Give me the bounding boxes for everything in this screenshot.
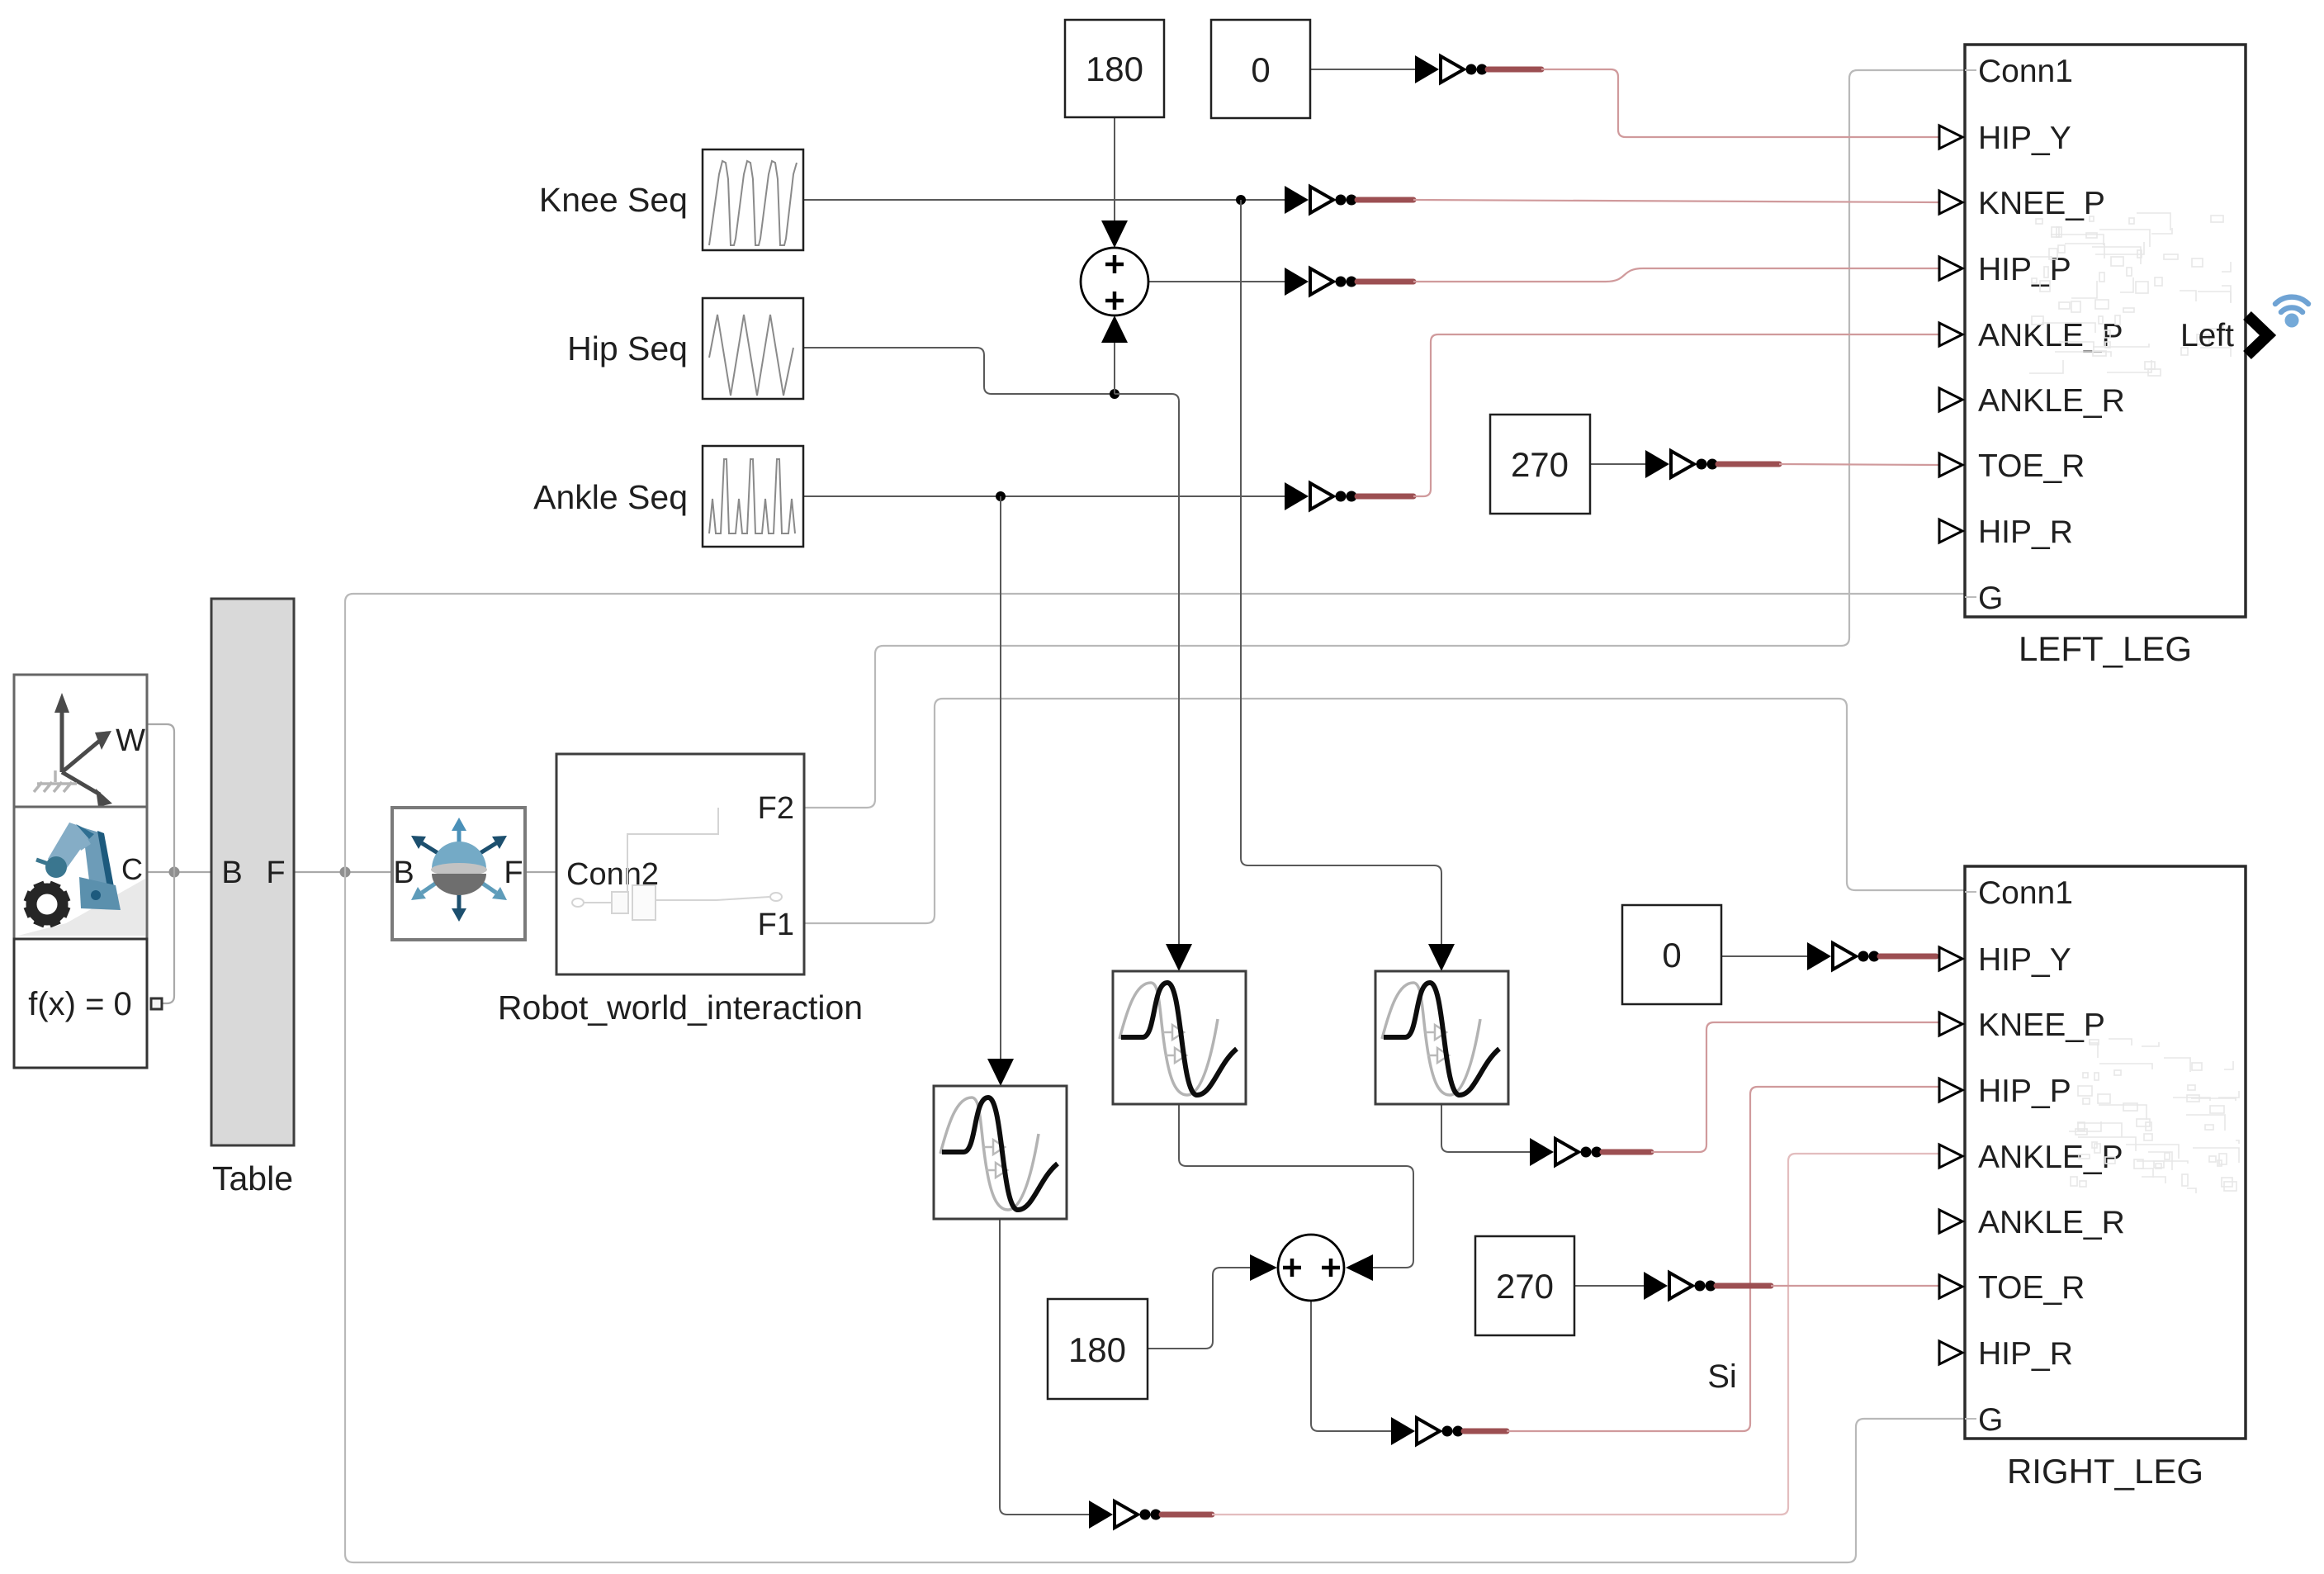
wire Hip branch to Lookup2: [1115, 394, 1179, 947]
svg-text:Table: Table: [212, 1159, 293, 1197]
wire Knee branch to Lookup3: [1241, 200, 1441, 947]
constant block 180 bottom: [1048, 1299, 1148, 1399]
subsystem block RIGHT_LEG: [1939, 866, 2246, 1439]
block Mechanism Config: [14, 807, 147, 939]
wire Solver f(x)=0 to bus: [162, 872, 174, 1003]
source block Knee Seq: [703, 149, 803, 250]
junction bus dot 2: [340, 867, 351, 878]
label RIGHT_LEG: [2007, 1452, 2203, 1491]
svg-text:C: C: [121, 852, 143, 886]
svg-text:0: 0: [1662, 936, 1681, 974]
svg-text:HIP_Y: HIP_Y: [1978, 942, 2071, 978]
wire Constant270 bottom output: [1574, 1285, 1644, 1287]
source block Hip Seq: [703, 298, 803, 399]
junction Knee dot: [1236, 195, 1246, 205]
svg-text:HIP_R: HIP_R: [1978, 1336, 2073, 1372]
svg-text:270: 270: [1496, 1267, 1554, 1306]
wire Ankle Seq output: [803, 495, 1285, 497]
constant block 270 top: [1490, 415, 1590, 514]
arrowhead into Lookup1: [987, 1059, 1014, 1086]
svg-text:Left: Left: [2180, 318, 2234, 353]
svg-text:G: G: [1978, 1402, 2003, 1438]
svg-text:Knee Seq: Knee Seq: [539, 181, 688, 219]
converter chain TOE_R left: [1645, 450, 1779, 478]
sum block Sum2: [1278, 1235, 1344, 1301]
svg-text:Conn1: Conn1: [1978, 54, 2073, 89]
svg-text:B: B: [221, 856, 242, 890]
svg-text:G: G: [1978, 581, 2003, 616]
svg-text:180: 180: [1086, 50, 1143, 88]
svg-text:HIP_Y: HIP_Y: [1978, 121, 2071, 156]
wire Constant 180 bottom to Sum2: [1148, 1268, 1250, 1349]
converter chain HIP_P right: [1391, 1417, 1507, 1445]
block Solver: [14, 939, 162, 1068]
wire HIP_P left red: [1413, 268, 1939, 282]
subsystem block LEFT_LEG: [1939, 45, 2246, 617]
wire World Frame to bus: [147, 724, 174, 872]
converter chain HIP_Y right: [1807, 942, 1936, 970]
svg-text:Ankle Seq: Ankle Seq: [533, 478, 688, 516]
svg-text:f(x) = 0: f(x) = 0: [28, 986, 132, 1022]
junction Ankle dot: [996, 491, 1006, 501]
arrowhead into Sum1 bottom: [1101, 315, 1128, 343]
label Robot_world_interaction: [498, 988, 863, 1026]
svg-text:Si: Si: [1707, 1358, 1737, 1395]
wire bus to LEFT_LEG G: [345, 594, 1965, 872]
wire world/config bus C-B: [147, 871, 211, 873]
wire F2 to LEFT_LEG Conn1: [802, 70, 1965, 808]
svg-text:180: 180: [1068, 1330, 1126, 1369]
svg-text:HIP_R: HIP_R: [1978, 514, 2073, 550]
block SixDOF joint: [392, 808, 525, 940]
wire Sum1 output: [1148, 281, 1285, 282]
converter chain TOE_R right: [1644, 1272, 1771, 1300]
svg-text:TOE_R: TOE_R: [1978, 448, 2085, 484]
svg-text:ANKLE_P: ANKLE_P: [1978, 1140, 2123, 1175]
label Si: [1707, 1358, 1737, 1395]
arrowhead into Sum2 left: [1250, 1254, 1277, 1281]
lookup block Lookup3: [1375, 971, 1508, 1104]
svg-text:KNEE_P: KNEE_P: [1978, 1007, 2105, 1043]
arrowhead into Lookup3: [1428, 944, 1455, 971]
label Table: [212, 1159, 293, 1197]
wire F1 to RIGHT_LEG Conn1: [802, 699, 1965, 923]
arrowhead into Sum2 right: [1346, 1254, 1373, 1281]
junction bus dot 1: [169, 867, 180, 878]
wire Sum2 output to chain: [1311, 1301, 1391, 1431]
svg-text:TOE_R: TOE_R: [1978, 1270, 2085, 1306]
block Robot_world_interaction: [556, 754, 804, 974]
wire Knee Seq output: [803, 199, 1285, 201]
block World Frame: [14, 675, 147, 807]
converter chain HIP_Y left: [1415, 55, 1541, 83]
wire Ankle branch to Lookup1: [1000, 496, 1001, 1063]
wire ANKLE_P left red: [1413, 334, 1939, 496]
svg-text:B: B: [393, 856, 414, 890]
constant block 0 bottom: [1622, 905, 1721, 1004]
lookup block Lookup1: [934, 1086, 1067, 1219]
svg-text:KNEE_P: KNEE_P: [1978, 186, 2105, 221]
wire SixDOF F to Conn2: [525, 871, 556, 873]
block Table: [211, 599, 294, 1145]
wire Lookup2 output to Sum2: [1179, 1104, 1413, 1268]
svg-text:F1: F1: [758, 908, 794, 942]
wire Constant0 top output: [1310, 69, 1415, 70]
svg-text:Robot_world_interaction: Robot_world_interaction: [498, 988, 863, 1026]
junction Hip dot: [1110, 389, 1119, 399]
wire Lookup3 output to chain: [1441, 1104, 1530, 1152]
svg-text:W: W: [116, 723, 145, 758]
svg-text:ANKLE_R: ANKLE_R: [1978, 383, 2125, 419]
wire KNEE_P right red: [1651, 1022, 1939, 1152]
label Hip Seq: [567, 329, 688, 367]
label LEFT_LEG: [2019, 629, 2192, 668]
wire Hip Seq output: [803, 348, 1115, 394]
svg-text:Conn1: Conn1: [1978, 875, 2073, 911]
source block Ankle Seq: [703, 446, 803, 547]
constant block 270 bottom: [1475, 1236, 1574, 1335]
converter chain ANKLE_P left: [1285, 482, 1413, 510]
label Knee Seq: [539, 181, 688, 219]
constant block 0 top: [1211, 20, 1310, 118]
converter chain KNEE_P left: [1285, 186, 1413, 214]
wire HIP_P right red: [1507, 1087, 1939, 1431]
svg-text:F: F: [504, 856, 523, 890]
svg-text:LEFT_LEG: LEFT_LEG: [2019, 629, 2192, 668]
wire TOE_R left red: [1779, 464, 1939, 465]
converter chain HIP_P left: [1285, 268, 1413, 296]
svg-text:270: 270: [1511, 445, 1569, 484]
svg-text:Hip Seq: Hip Seq: [567, 329, 688, 367]
wire Hip branch to Sum1 bottom: [1114, 342, 1115, 394]
wireless icon: [2275, 297, 2308, 328]
svg-text:RIGHT_LEG: RIGHT_LEG: [2007, 1452, 2203, 1491]
arrowhead into Lookup2: [1166, 944, 1192, 971]
wire bus to RIGHT_LEG G: [345, 872, 1965, 1562]
svg-text:HIP_P: HIP_P: [1978, 1074, 2071, 1109]
svg-text:0: 0: [1251, 50, 1270, 89]
label Ankle Seq: [533, 478, 688, 516]
arrowhead into Sum1 top: [1101, 220, 1128, 248]
wire KNEE_P left red: [1413, 200, 1939, 202]
wire Constant 180 to Sum1: [1114, 117, 1115, 223]
wire Lookup1 output to chain: [1000, 1218, 1089, 1515]
converter chain ANKLE_P right: [1089, 1501, 1212, 1529]
output port Left of LEFT_LEG: [2180, 315, 2268, 355]
wire ANKLE_P right red: [1212, 1154, 1939, 1515]
constant block 180 top: [1065, 20, 1164, 117]
sum block Sum1: [1081, 248, 1148, 315]
svg-text:ANKLE_R: ANKLE_R: [1978, 1205, 2125, 1240]
wire Constant270 top output: [1590, 463, 1645, 465]
wire Table F to SixDOF B: [294, 871, 392, 873]
converter chain KNEE_P right: [1530, 1138, 1651, 1166]
svg-text:F2: F2: [758, 791, 794, 826]
wire HIP_Y left red: [1541, 69, 1939, 137]
svg-text:F: F: [266, 856, 285, 890]
wire Constant0 bottom output: [1721, 955, 1807, 957]
wire TOE_R right red: [1771, 1285, 1939, 1287]
lookup block Lookup2: [1113, 971, 1246, 1104]
